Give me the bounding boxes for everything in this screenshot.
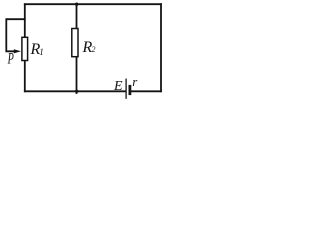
svg-text:P: P xyxy=(7,51,14,68)
svg-text:2: 2 xyxy=(92,45,96,54)
svg-text:E: E xyxy=(113,79,123,94)
svg-text:1: 1 xyxy=(39,47,44,57)
